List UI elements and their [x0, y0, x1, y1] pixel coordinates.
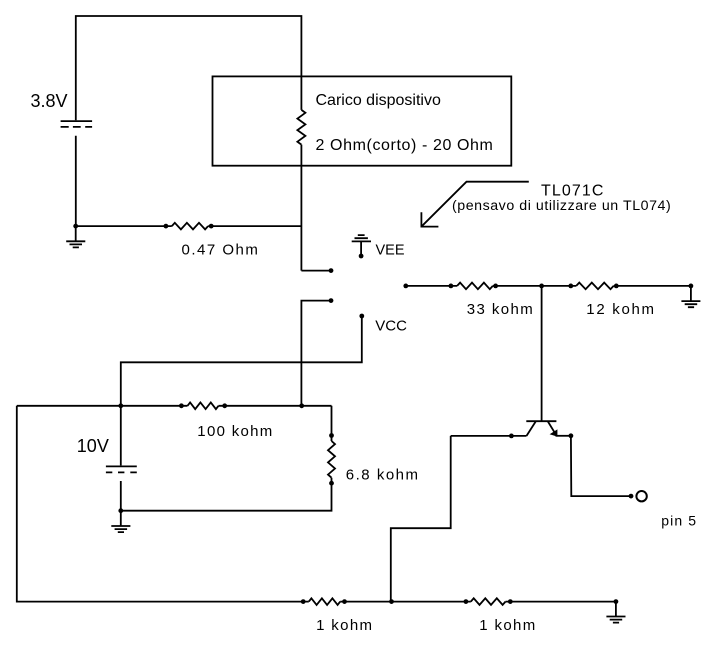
wire base of Q1 [541, 286, 543, 421]
ground symbol G4 [606, 602, 625, 623]
wire left rail and bottom row [17, 406, 616, 602]
resistor R4 100 kohm zigzag [188, 403, 219, 410]
svg-text:pin 5: pin 5 [661, 513, 697, 529]
svg-text:0.47 Ohm: 0.47 Ohm [182, 241, 260, 258]
svg-text:100 kohm: 100 kohm [197, 423, 273, 440]
svg-text:VEE: VEE [376, 243, 405, 259]
wire emitter to pin 5 [571, 436, 631, 496]
terminal dot pin 5 [629, 494, 634, 499]
terminal dot R5 bottom [329, 481, 334, 486]
terminal dot R1 right [209, 224, 214, 229]
resistor Rload zigzag [297, 110, 305, 145]
wire collector to bottom junction [391, 436, 451, 602]
terminal dot R7 right [508, 599, 513, 604]
VEE power symbol (inverted ground) [352, 235, 371, 256]
junction dot 10V bottom / G3 [118, 508, 123, 513]
node dot left end of feedback row [403, 284, 408, 289]
resistor R5 6.8 kohm zigzag [328, 441, 335, 478]
wire emitter lead [556, 435, 571, 437]
box Carico dispositivo [213, 76, 512, 165]
wire top loop from battery to load [76, 16, 302, 120]
wire battery B2 negative stem [120, 481, 122, 511]
terminal dot R4 left [179, 403, 184, 408]
resistor R3 12 kohm zigzag [576, 283, 613, 290]
terminal dot R5 top [329, 433, 334, 438]
node stub lower wire [301, 301, 331, 406]
wire 100 kohm row [17, 406, 332, 441]
node dot op-amp output stub [329, 268, 334, 273]
svg-text:1 kohm: 1 kohm [316, 617, 373, 634]
wire 0.47 Ohm row [76, 225, 302, 227]
terminal dot Q1 emitter [569, 433, 574, 438]
transistor Q1 collector leg [527, 422, 536, 436]
svg-text:12 kohm: 12 kohm [586, 301, 655, 318]
terminal dot R2 right [493, 284, 498, 289]
junction dot 10V top [118, 403, 123, 408]
svg-text:6.8 kohm: 6.8 kohm [346, 466, 420, 483]
terminal dot R3 right [614, 284, 619, 289]
svg-text:VCC: VCC [375, 317, 407, 334]
junction dot G4 [614, 599, 619, 604]
svg-text:(pensavo di utilizzare un TL07: (pensavo di utilizzare un TL074) [452, 198, 671, 214]
VCC stub wire [121, 316, 362, 406]
transistor Q1 emitter arrowhead [550, 429, 558, 436]
transistor Q1 emitter leg [548, 422, 554, 432]
svg-text:3.8V: 3.8V [31, 91, 68, 111]
ground symbol G1 [66, 226, 85, 247]
terminal dot R7 left [464, 599, 469, 604]
pin 5 open terminal circle [636, 491, 646, 501]
resistor R1 0.47 Ohm zigzag [172, 223, 208, 230]
svg-text:TL071C: TL071C [541, 182, 605, 199]
battery B2 10V solid plate [106, 465, 137, 467]
svg-text:2 Ohm(corto) - 20 Ohm: 2 Ohm(corto) - 20 Ohm [316, 137, 494, 154]
svg-text:33 kohm: 33 kohm [467, 301, 534, 318]
terminal dot VEE [359, 254, 364, 259]
battery B1 3.8V solid plate [61, 120, 93, 122]
wire 33k/12k row [406, 286, 691, 301]
terminal dot R3 left [568, 284, 573, 289]
terminal dot R6 left [301, 599, 306, 604]
wire collector lead [451, 435, 527, 437]
terminal dot Q1 collector [509, 434, 514, 439]
junction dot battery B1 / R1 / G1 [73, 224, 78, 229]
terminal dot R6 right [342, 599, 347, 604]
terminal dot R1 left [164, 224, 169, 229]
terminal dot R2 left [449, 284, 454, 289]
junction dot base node [539, 284, 544, 289]
svg-text:10V: 10V [77, 436, 109, 456]
resistor R7 1 kohm zigzag [471, 598, 506, 605]
transistor Q1 base bar [526, 420, 556, 422]
wire 10V bottom to 6.8k bottom [121, 478, 332, 511]
node dot op-amp input stub [329, 298, 334, 303]
leader arrow to TL071C [422, 182, 529, 227]
resistor R6 1 kohm zigzag [309, 598, 340, 605]
ground symbol G2 [681, 301, 700, 307]
junction dot load bottom node [299, 403, 304, 408]
battery B2 10V stem [120, 406, 122, 466]
wire battery B1 negative stem [75, 136, 77, 226]
svg-text:1 kohm: 1 kohm [479, 617, 536, 634]
svg-text:Carico dispositivo: Carico dispositivo [316, 92, 441, 109]
terminal dot R4 right [222, 403, 227, 408]
terminal dot VCC [359, 314, 364, 319]
wire load stem inside box [301, 76, 331, 270]
resistor R2 33 kohm zigzag [457, 283, 493, 290]
battery B1 3.8V dashed plate [61, 126, 93, 128]
ground symbol G3 [111, 511, 130, 532]
junction dot bottom center [389, 599, 394, 604]
battery B2 10V dashed plate [106, 471, 137, 473]
junction dot G2 corner [689, 284, 694, 289]
